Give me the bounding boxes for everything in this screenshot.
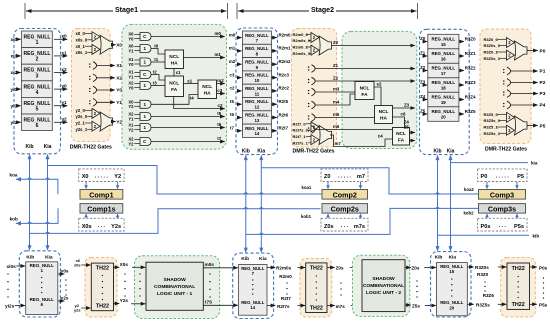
svg-text:Z3: Z3 (420, 80, 426, 85)
svg-text:R2m0s: R2m0s (276, 265, 292, 270)
svg-text:REG_NULL: REG_NULL (245, 126, 269, 131)
svg-text:REG_NULL: REG_NULL (245, 86, 269, 91)
svg-text:REG_NULL: REG_NULL (440, 300, 464, 305)
svg-text:Z5: Z5 (420, 109, 426, 114)
svg-text:R2m0s_0: R2m0s_0 (293, 38, 311, 43)
svg-text:s2: s2 (377, 82, 382, 87)
svg-text:x2: x2 (61, 67, 67, 73)
svg-text:REG_NULL: REG_NULL (431, 66, 455, 71)
svg-text:y2s: y2s (61, 296, 69, 301)
svg-text:Y1: Y1 (128, 74, 134, 79)
svg-text:. . .: . . . (499, 223, 507, 229)
svg-text:R3Z0s_1: R3Z0s_1 (484, 56, 501, 61)
svg-text:R3Z0s_0: R3Z0s_0 (484, 43, 501, 48)
svg-text:P5s: P5s (514, 224, 524, 230)
svg-text:NCL: NCL (396, 131, 406, 137)
svg-text:P0: P0 (481, 174, 488, 180)
svg-text:x0_1: x0_1 (76, 44, 86, 49)
svg-text:yi2: yi2 (11, 120, 18, 126)
svg-text:koa1: koa1 (302, 185, 312, 190)
svg-text:R3Z0_0: R3Z0_0 (484, 37, 499, 42)
svg-text:TH22: TH22 (96, 266, 109, 272)
svg-text:SHADOW: SHADOW (163, 277, 186, 283)
svg-text:koa2: koa2 (464, 187, 474, 192)
svg-text:y0: y0 (61, 84, 67, 90)
svg-text:11: 11 (255, 91, 260, 96)
svg-text:R3Z3: R3Z3 (465, 80, 476, 85)
svg-text:X0: X0 (82, 174, 89, 180)
svg-text:R3Z5_1: R3Z5_1 (484, 125, 499, 130)
svg-text:c3: c3 (217, 88, 222, 93)
svg-text:P3: P3 (540, 91, 546, 97)
svg-text:R2m1: R2m1 (279, 46, 292, 51)
svg-text:m1: m1 (229, 46, 236, 51)
svg-text:Comp1: Comp1 (89, 191, 113, 200)
svg-text:y2s_1: y2s_1 (76, 127, 88, 132)
svg-text:REG_NULL: REG_NULL (245, 33, 269, 38)
svg-text:14: 14 (250, 305, 255, 310)
svg-text:R3Z5_0: R3Z5_0 (484, 112, 499, 117)
svg-text:Z0s: Z0s (324, 224, 334, 230)
svg-text:R3Z0s: R3Z0s (475, 265, 489, 270)
svg-text:t5: t5 (217, 111, 221, 116)
svg-text:. . .: . . . (341, 223, 349, 229)
svg-text:DMR-TH22 Gates: DMR-TH22 Gates (485, 146, 527, 152)
svg-text:t3: t3 (153, 80, 157, 85)
svg-text:Kib: Kib (26, 254, 34, 260)
svg-text:. . .: . . . (98, 223, 106, 229)
svg-text:y1: y1 (61, 100, 67, 106)
svg-text:P2: P2 (540, 80, 546, 86)
svg-text:Z0: Z0 (324, 174, 331, 180)
svg-text:REG_NULL: REG_NULL (245, 113, 269, 118)
svg-text:m7: m7 (335, 141, 342, 146)
svg-text:Kia: Kia (257, 148, 265, 154)
svg-text:REG_NULL: REG_NULL (431, 37, 455, 42)
svg-text:x0s_1: x0s_1 (76, 50, 88, 55)
svg-text:FA: FA (171, 87, 178, 93)
svg-text:Y0: Y0 (116, 88, 122, 94)
svg-text:R2c3: R2c3 (279, 72, 290, 77)
svg-text:TH22: TH22 (310, 305, 323, 311)
svg-text:R2t7s_0: R2t7s_0 (293, 128, 309, 133)
svg-text:P5: P5 (540, 123, 546, 129)
svg-text:R2t7_0: R2t7_0 (293, 121, 307, 126)
svg-text:s1: s1 (187, 78, 192, 83)
svg-text:Kia: Kia (259, 256, 267, 262)
svg-text:x0s_0: x0s_0 (76, 37, 88, 42)
svg-text:Kib: Kib (25, 144, 33, 150)
svg-text:HA: HA (380, 116, 387, 122)
svg-text:m5: m5 (333, 112, 340, 117)
svg-text:10: 10 (254, 78, 259, 83)
svg-text:1: 1 (36, 40, 39, 46)
svg-text:P4: P4 (540, 103, 546, 109)
svg-text:15: 15 (441, 42, 446, 47)
svg-text:R2c2: R2c2 (279, 86, 290, 91)
svg-text:R2t5: R2t5 (279, 99, 289, 104)
svg-text:Y2: Y2 (128, 141, 134, 146)
svg-text:Z2: Z2 (333, 75, 339, 80)
svg-text:Z0s: Z0s (336, 266, 344, 271)
svg-text:R3Z2: R3Z2 (465, 65, 476, 70)
svg-text:X1: X1 (116, 63, 122, 69)
svg-text:R2m0: R2m0 (279, 32, 292, 37)
svg-text:Comp1s: Comp1s (87, 205, 115, 214)
svg-text:y2_0: y2_0 (76, 108, 86, 113)
svg-text:R3Z5s: R3Z5s (476, 303, 490, 308)
svg-text:X0: X0 (116, 43, 122, 49)
svg-text:HA: HA (204, 91, 211, 97)
svg-text:Kia: Kia (45, 254, 53, 260)
svg-text:Comp3: Comp3 (490, 191, 514, 200)
svg-text:18: 18 (441, 86, 446, 91)
svg-text:REG_NULL: REG_NULL (431, 51, 455, 56)
svg-text:m6: m6 (333, 124, 340, 129)
svg-text:REG_NULL: REG_NULL (245, 99, 269, 104)
svg-text:t2: t2 (153, 69, 157, 74)
svg-text:. . . . .: . . . . . (338, 173, 352, 179)
svg-text:FA: FA (361, 92, 368, 98)
svg-text:Y1: Y1 (128, 116, 134, 121)
svg-text:t6: t6 (217, 122, 221, 127)
svg-text:R3Z5s_0: R3Z5s_0 (484, 118, 501, 123)
svg-text:t5: t5 (230, 99, 234, 104)
svg-text:c3: c3 (230, 72, 235, 77)
svg-text:REG_NULL: REG_NULL (431, 80, 455, 85)
svg-text:P0s: P0s (539, 265, 548, 270)
svg-text:LOGIC UNIT - 2: LOGIC UNIT - 2 (366, 290, 402, 296)
svg-text:Kib: Kib (242, 148, 250, 154)
svg-text:R2m2: R2m2 (279, 59, 292, 64)
svg-text:R3Z1: R3Z1 (465, 51, 476, 56)
svg-text:COMBINATIONAL: COMBINATIONAL (363, 283, 404, 289)
svg-text:t0: t0 (154, 43, 158, 48)
svg-text:TH22: TH22 (96, 303, 109, 309)
svg-text:m0: m0 (229, 32, 236, 37)
svg-text:t7: t7 (217, 136, 221, 141)
svg-text:yi0: yi0 (11, 87, 18, 93)
svg-text:Z0: Z0 (333, 40, 339, 45)
svg-text:Comp3s: Comp3s (488, 205, 516, 214)
svg-text:R2t7s: R2t7s (277, 304, 290, 309)
svg-text:kib: kib (533, 233, 540, 238)
svg-text:REG_NULL: REG_NULL (245, 73, 269, 78)
svg-text:Z5s: Z5s (412, 303, 420, 308)
svg-text:NCL: NCL (379, 109, 389, 115)
svg-text:Comp2: Comp2 (333, 191, 357, 200)
svg-text:Z3: Z3 (404, 102, 410, 107)
svg-text:Y1: Y1 (116, 100, 122, 106)
svg-text:m3: m3 (333, 86, 340, 91)
svg-text:m7s: m7s (336, 304, 346, 309)
svg-text:Z0: Z0 (420, 36, 426, 41)
svg-text:R3Z0: R3Z0 (477, 272, 489, 277)
svg-text:NCL: NCL (169, 54, 179, 60)
svg-text:t4: t4 (190, 96, 194, 101)
svg-text:R2t7: R2t7 (281, 296, 291, 301)
svg-text:TH22: TH22 (512, 302, 525, 308)
svg-text:m4: m4 (333, 99, 340, 104)
svg-text:y2s: y2s (74, 308, 81, 313)
svg-text:R3Z4: R3Z4 (465, 94, 476, 99)
svg-text:m2: m2 (217, 78, 224, 83)
svg-text:17: 17 (441, 71, 446, 76)
svg-text:4: 4 (36, 90, 39, 96)
svg-text:Kia: Kia (44, 144, 52, 150)
svg-text:Y2: Y2 (116, 119, 122, 125)
svg-text:t7: t7 (230, 126, 234, 131)
svg-text:R3Z0_1: R3Z0_1 (484, 50, 499, 55)
svg-text:Z1: Z1 (333, 63, 339, 68)
svg-text:NCL: NCL (202, 84, 212, 90)
svg-text:P5s: P5s (539, 303, 548, 308)
svg-text:R3Z5s_1: R3Z5s_1 (484, 131, 501, 136)
svg-text:m2: m2 (229, 59, 236, 64)
svg-text:TH22: TH22 (512, 266, 525, 272)
svg-text:Z1: Z1 (420, 51, 426, 56)
svg-text:kob1: kob1 (301, 214, 312, 219)
svg-text:Y0: Y0 (128, 62, 134, 67)
svg-text:c1: c1 (176, 70, 181, 75)
svg-text:R2t6: R2t6 (279, 112, 289, 117)
svg-text:20: 20 (449, 305, 454, 310)
svg-text:xi0s: xi0s (6, 264, 16, 270)
svg-text:R3Z5: R3Z5 (465, 109, 476, 114)
svg-text:COMBINATIONAL: COMBINATIONAL (154, 284, 195, 290)
svg-text:5: 5 (36, 107, 39, 113)
svg-text:REG_NULL: REG_NULL (245, 46, 269, 51)
svg-text:SHADOW: SHADOW (372, 276, 395, 282)
svg-text:12: 12 (254, 105, 259, 110)
svg-text:y2: y2 (61, 117, 67, 123)
svg-text:Stage2: Stage2 (311, 7, 334, 14)
svg-text:y2_1: y2_1 (76, 121, 86, 126)
svg-text:Y2: Y2 (128, 127, 134, 132)
svg-text:P0: P0 (540, 48, 546, 54)
svg-text:m7: m7 (357, 174, 365, 180)
svg-text:Y0: Y0 (128, 36, 134, 41)
svg-text:P1: P1 (540, 69, 546, 75)
svg-text:R2m0s_1: R2m0s_1 (293, 51, 311, 56)
svg-text:Y0: Y0 (128, 85, 134, 90)
svg-text:13: 13 (254, 118, 259, 123)
svg-text:NCL: NCL (360, 85, 370, 91)
svg-text:19: 19 (441, 100, 446, 105)
svg-text:3: 3 (36, 73, 39, 79)
svg-text:x0s: x0s (61, 269, 69, 274)
svg-text:Stage1: Stage1 (115, 7, 138, 14)
svg-text:xi1: xi1 (11, 54, 18, 60)
svg-text:Kia: Kia (447, 149, 455, 155)
svg-text:Y2: Y2 (128, 104, 134, 109)
svg-text:X2: X2 (116, 76, 122, 82)
svg-text:koa: koa (10, 173, 18, 178)
svg-text:6: 6 (36, 123, 39, 129)
svg-text:c6: c6 (401, 112, 406, 117)
svg-text:kob2: kob2 (464, 210, 475, 215)
svg-text:LOGIC UNIT - 1: LOGIC UNIT - 1 (157, 291, 193, 297)
svg-text:kia: kia (531, 161, 538, 166)
svg-text:m0s: m0s (205, 262, 215, 267)
svg-text:P0s: P0s (481, 224, 491, 230)
svg-text:X0s: X0s (82, 224, 92, 230)
svg-text:X0s: X0s (120, 262, 129, 267)
svg-text:c2: c2 (218, 103, 223, 108)
svg-text:NCL: NCL (169, 81, 179, 87)
svg-text:R2t7: R2t7 (279, 126, 289, 131)
svg-text:R2t7_1: R2t7_1 (293, 134, 307, 139)
svg-text:m1: m1 (215, 52, 222, 57)
svg-text:P5: P5 (517, 174, 524, 180)
svg-text:t7S: t7S (205, 300, 212, 305)
svg-text:Kib: Kib (433, 149, 441, 155)
svg-text:Comp2s: Comp2s (331, 205, 359, 214)
svg-text:c2: c2 (230, 86, 235, 91)
svg-text:REG_NULL: REG_NULL (431, 95, 455, 100)
svg-text:x0_0: x0_0 (76, 31, 86, 36)
svg-text:REG_NULL: REG_NULL (431, 109, 455, 114)
svg-text:Kib: Kib (241, 256, 249, 262)
svg-text:yi2s: yi2s (5, 303, 15, 309)
svg-text:Y2: Y2 (114, 174, 121, 180)
svg-text:TH22: TH22 (310, 266, 323, 272)
svg-text:Y2s: Y2s (120, 298, 129, 303)
svg-text:xi2: xi2 (11, 70, 18, 76)
svg-text:Kib: Kib (435, 255, 443, 261)
svg-text:Z5: Z5 (404, 124, 410, 129)
svg-text:t1: t1 (154, 57, 158, 62)
svg-text:20: 20 (441, 115, 446, 120)
svg-text:yi1: yi1 (11, 103, 18, 109)
svg-text:Z0s: Z0s (412, 266, 420, 271)
svg-text:14: 14 (254, 131, 259, 136)
svg-text:m0: m0 (215, 31, 222, 36)
svg-text:x0: x0 (61, 34, 67, 40)
svg-text:m7s: m7s (354, 224, 365, 230)
svg-text:15: 15 (449, 269, 454, 274)
svg-text:c4: c4 (378, 133, 383, 138)
svg-text:kob: kob (10, 217, 18, 222)
svg-text:. . . . .: . . . . . (95, 173, 109, 179)
svg-text:R2m0: R2m0 (279, 274, 292, 279)
svg-text:R3Z0: R3Z0 (465, 36, 476, 41)
svg-text:FA: FA (398, 138, 405, 144)
svg-text:Z4: Z4 (420, 94, 426, 99)
svg-text:HA: HA (171, 61, 178, 67)
svg-text:REG_NULL: REG_NULL (245, 59, 269, 64)
svg-text:xi0: xi0 (11, 37, 18, 43)
svg-text:R3Z6: R3Z6 (483, 293, 495, 298)
svg-text:Y2s: Y2s (111, 224, 121, 230)
svg-text:x1: x1 (61, 50, 67, 56)
svg-text:. . . . .: . . . . . (496, 173, 510, 179)
svg-text:x0s: x0s (74, 262, 81, 267)
svg-text:Kia: Kia (449, 255, 457, 261)
svg-text:t6: t6 (230, 112, 234, 117)
svg-text:DMR-TH22 Gates: DMR-TH22 Gates (292, 149, 334, 155)
svg-text:Z2: Z2 (420, 65, 426, 70)
svg-text:16: 16 (441, 57, 446, 62)
svg-text:Y1: Y1 (128, 48, 134, 53)
svg-text:DMR-TH22 Gates: DMR-TH22 Gates (70, 145, 112, 151)
svg-text:y2s_0: y2s_0 (76, 114, 88, 119)
svg-text:2: 2 (36, 57, 39, 63)
svg-text:R2t7s_1: R2t7s_1 (293, 140, 309, 145)
